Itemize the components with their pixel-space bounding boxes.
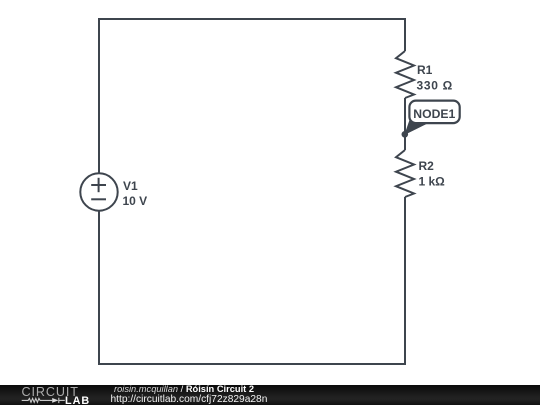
svg-text:LAB: LAB [65,395,90,405]
wire mid right [404,98,406,150]
NODE1 callout tail [404,121,429,136]
wire right upper [404,18,406,51]
voltage source V1 [80,173,117,210]
svg-text:10 V: 10 V [123,194,148,208]
svg-text:R1: R1 [417,63,433,77]
wire right lower [404,197,406,365]
resistor R2 [396,150,414,197]
NODE1 callout box [409,101,459,124]
footer title [114,384,254,394]
resistor R1 [396,51,414,98]
svg-text:R2: R2 [419,159,435,173]
node dot NODE1 junction [402,131,409,138]
wire left upper [98,18,100,173]
svg-text:V1: V1 [123,179,138,193]
svg-text:1 kΩ: 1 kΩ [419,174,446,188]
footer url [111,394,268,405]
wire left lower [98,211,100,365]
footer bar [0,385,540,405]
wire bottom [98,363,406,365]
svg-text:330 Ω: 330 Ω [417,78,453,92]
wire top [98,18,406,20]
svg-text:NODE1: NODE1 [413,107,455,121]
circuitlab logo [0,0,100,405]
